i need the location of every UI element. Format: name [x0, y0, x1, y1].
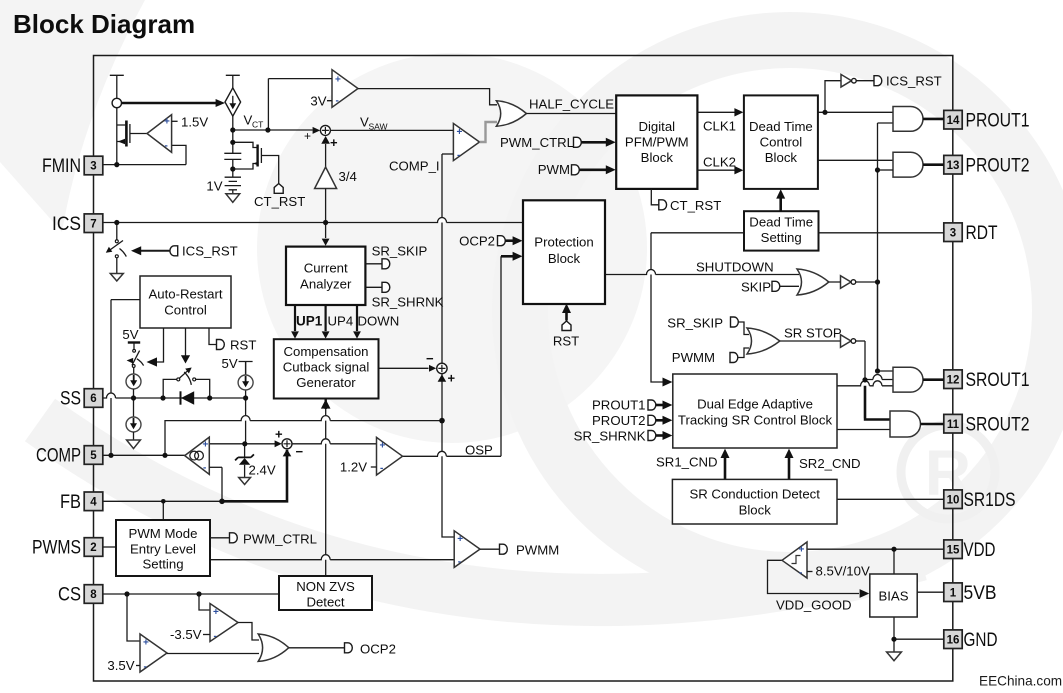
svg-text:+: + — [275, 427, 283, 442]
svg-text:SAW: SAW — [369, 122, 388, 132]
svg-text:1.2V: 1.2V — [340, 460, 367, 475]
svg-text:11: 11 — [947, 419, 960, 431]
svg-text:1V: 1V — [206, 179, 222, 194]
svg-text:RDT: RDT — [966, 223, 998, 244]
svg-text:4: 4 — [90, 496, 97, 508]
svg-text:ICS_RST: ICS_RST — [886, 74, 942, 89]
svg-text:5VB: 5VB — [964, 583, 997, 604]
svg-text:PROUT2: PROUT2 — [966, 155, 1030, 176]
svg-text:PWMM: PWMM — [516, 543, 559, 558]
svg-text:Generator: Generator — [296, 375, 356, 390]
svg-text:Block Diagram: Block Diagram — [13, 9, 195, 39]
svg-text:3: 3 — [950, 227, 956, 239]
svg-text:7: 7 — [90, 218, 96, 230]
svg-text:CLK1: CLK1 — [703, 119, 736, 134]
svg-text:PROUT1: PROUT1 — [592, 398, 646, 413]
svg-text:UP1: UP1 — [296, 314, 323, 329]
svg-text:−: − — [426, 351, 434, 366]
svg-text:5V: 5V — [222, 356, 238, 371]
svg-text:VDD: VDD — [964, 540, 996, 561]
svg-text:+: + — [304, 129, 311, 143]
svg-text:PROUT1: PROUT1 — [966, 110, 1030, 131]
svg-text:SR_SHRNK: SR_SHRNK — [372, 295, 444, 310]
svg-text:Setting: Setting — [761, 230, 802, 245]
svg-text:SHUTDOWN: SHUTDOWN — [696, 260, 774, 275]
svg-text:OCP2: OCP2 — [360, 642, 396, 657]
svg-text:-: - — [165, 141, 168, 152]
svg-text:SR1_CND: SR1_CND — [656, 455, 718, 470]
svg-text:EEChina.com: EEChina.com — [979, 674, 1062, 689]
svg-text:+: + — [203, 440, 209, 451]
svg-text:-3.5V: -3.5V — [170, 627, 202, 642]
svg-text:SR1DS: SR1DS — [964, 490, 1016, 511]
svg-text:+: + — [380, 441, 386, 452]
svg-text:-: - — [458, 557, 461, 568]
svg-text:−: − — [296, 444, 304, 459]
svg-text:COMP: COMP — [36, 446, 81, 467]
svg-text:5: 5 — [90, 450, 97, 462]
svg-text:RST: RST — [230, 338, 256, 353]
svg-text:ICS: ICS — [52, 214, 81, 235]
svg-text:CLK2: CLK2 — [703, 155, 736, 170]
svg-text:HALF_CYCLE: HALF_CYCLE — [529, 97, 614, 112]
svg-text:SS: SS — [60, 389, 81, 410]
svg-text:SR2_CND: SR2_CND — [799, 456, 861, 471]
svg-text:+: + — [457, 127, 463, 138]
svg-text:CT_RST: CT_RST — [670, 198, 721, 213]
svg-text:VDD_GOOD: VDD_GOOD — [776, 598, 851, 613]
svg-text:Block: Block — [641, 150, 674, 165]
svg-text:-: - — [336, 96, 339, 107]
svg-text:8: 8 — [90, 589, 97, 601]
svg-text:PROUT2: PROUT2 — [592, 413, 646, 428]
svg-text:15: 15 — [947, 544, 960, 556]
svg-text:Current: Current — [304, 261, 348, 276]
svg-text:SR_SHRNK: SR_SHRNK — [574, 429, 646, 444]
svg-text:14: 14 — [947, 115, 960, 127]
svg-text:DOWN: DOWN — [358, 314, 400, 329]
svg-text:Block: Block — [765, 150, 798, 165]
svg-text:PWMS: PWMS — [32, 538, 81, 559]
svg-text:NON ZVS: NON ZVS — [296, 579, 355, 594]
svg-text:PFM/PWM: PFM/PWM — [625, 135, 689, 150]
svg-text:COMP_I: COMP_I — [389, 159, 440, 174]
svg-text:3/4: 3/4 — [339, 169, 357, 184]
svg-text:Block: Block — [739, 503, 772, 518]
svg-text:ICS_RST: ICS_RST — [182, 244, 238, 259]
svg-text:+: + — [457, 534, 463, 545]
svg-text:Digital: Digital — [638, 119, 675, 134]
svg-text:SR STOP: SR STOP — [784, 326, 842, 341]
svg-text:Cutback signal: Cutback signal — [283, 360, 370, 375]
svg-text:RST: RST — [553, 334, 579, 349]
svg-text:3: 3 — [90, 161, 96, 173]
svg-text:-: - — [144, 662, 147, 673]
svg-text:CT: CT — [252, 120, 263, 130]
svg-text:6: 6 — [90, 393, 96, 405]
svg-text:+: + — [143, 638, 149, 649]
svg-text:3V: 3V — [310, 94, 326, 109]
svg-text:13: 13 — [947, 160, 960, 172]
svg-text:UP4: UP4 — [328, 314, 354, 329]
svg-text:+: + — [213, 607, 219, 618]
svg-text:Dead Time: Dead Time — [749, 119, 813, 134]
svg-text:Protection: Protection — [534, 235, 593, 250]
svg-text:1: 1 — [950, 587, 957, 599]
svg-text:-: - — [203, 463, 206, 474]
svg-text:-: - — [380, 463, 383, 474]
svg-text:+: + — [448, 371, 456, 386]
svg-text:3.5V: 3.5V — [107, 658, 134, 673]
svg-text:PWM Mode: PWM Mode — [129, 526, 198, 541]
svg-text:SROUT1: SROUT1 — [966, 370, 1030, 391]
svg-text:12: 12 — [947, 374, 960, 386]
svg-text:SKIP: SKIP — [741, 280, 771, 295]
svg-text:CS: CS — [58, 585, 81, 606]
svg-text:Block: Block — [548, 251, 581, 266]
svg-text:PWM: PWM — [538, 162, 570, 177]
svg-text:FMIN: FMIN — [42, 156, 81, 177]
svg-text:Control: Control — [164, 303, 207, 318]
svg-text:Entry Level: Entry Level — [130, 542, 196, 557]
svg-text:Analyzer: Analyzer — [300, 277, 352, 292]
svg-text:PWM_CTRL: PWM_CTRL — [500, 135, 574, 150]
svg-text:OSP: OSP — [465, 443, 493, 458]
svg-text:10: 10 — [947, 494, 960, 506]
svg-text:+: + — [330, 135, 338, 150]
svg-text:16: 16 — [947, 634, 960, 646]
svg-text:-: - — [457, 150, 460, 161]
svg-text:+: + — [164, 117, 170, 128]
svg-text:SR_SKIP: SR_SKIP — [667, 316, 723, 331]
svg-text:-: - — [799, 568, 802, 579]
svg-text:Dual Edge Adaptive: Dual Edge Adaptive — [697, 397, 813, 412]
svg-text:8.5V/10V: 8.5V/10V — [816, 564, 870, 579]
svg-text:Auto-Restart: Auto-Restart — [148, 287, 222, 302]
svg-text:2: 2 — [90, 542, 96, 554]
svg-text:+: + — [799, 545, 805, 556]
svg-text:1.5V: 1.5V — [181, 115, 208, 130]
svg-text:GND: GND — [964, 630, 998, 651]
svg-text:PWM_CTRL: PWM_CTRL — [243, 532, 317, 547]
svg-text:+: + — [335, 75, 341, 86]
svg-text:CT_RST: CT_RST — [254, 194, 305, 209]
svg-text:SROUT2: SROUT2 — [966, 414, 1030, 435]
svg-text:Compensation: Compensation — [283, 344, 368, 359]
svg-text:Dead Time: Dead Time — [749, 215, 813, 230]
svg-text:5V: 5V — [122, 327, 138, 342]
svg-text:FB: FB — [60, 492, 81, 513]
svg-text:Control: Control — [760, 135, 803, 150]
svg-text:Setting: Setting — [142, 557, 183, 572]
svg-text:2.4V: 2.4V — [249, 463, 276, 478]
svg-text:-: - — [214, 631, 217, 642]
svg-text:PWMM: PWMM — [672, 350, 715, 365]
svg-text:SR Conduction Detect: SR Conduction Detect — [689, 487, 820, 502]
svg-text:SR_SKIP: SR_SKIP — [372, 244, 428, 259]
svg-text:Tracking SR Control Block: Tracking SR Control Block — [678, 413, 833, 428]
svg-text:BIAS: BIAS — [878, 589, 908, 604]
svg-text:Detect: Detect — [306, 595, 344, 610]
svg-text:OCP2: OCP2 — [459, 234, 495, 249]
